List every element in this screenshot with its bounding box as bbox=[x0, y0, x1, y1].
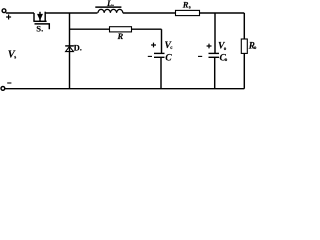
svg-text:s: s bbox=[14, 56, 16, 61]
load resistor R box bbox=[241, 39, 247, 53]
inductor L coil bbox=[95, 7, 123, 13]
capacitor C2 vertical from top rail bbox=[214, 13, 216, 53]
resistor Rs box bbox=[176, 10, 200, 15]
node A vertical wire (to diode / snubber tee) bbox=[69, 13, 71, 89]
svg-text:S.: S. bbox=[36, 23, 43, 33]
label plus (C1) bbox=[151, 43, 156, 48]
wire top rail inductor to Rs bbox=[123, 12, 176, 14]
wire right edge down from corner to load box bbox=[243, 13, 245, 39]
resistor R box (snubber) bbox=[110, 27, 132, 32]
terminal minus (bottom-left) bbox=[1, 83, 11, 90]
label plus (C2) bbox=[207, 44, 212, 49]
capacitor C1 plates bbox=[154, 53, 165, 57]
svg-text:R: R bbox=[117, 31, 124, 41]
terminal plus (top-left) bbox=[2, 9, 11, 20]
svg-text:C: C bbox=[165, 52, 172, 63]
label minus (C1) bbox=[148, 55, 152, 57]
diode D bbox=[65, 46, 74, 52]
wire load box to bottom rail bbox=[243, 54, 245, 89]
svg-text:L.: L. bbox=[106, 0, 114, 8]
svg-text:R: R bbox=[182, 0, 189, 10]
snubber wire from node A bbox=[70, 28, 162, 30]
wire corner down to capacitor C1 bbox=[161, 29, 163, 53]
wire top rail from plus terminal to switch bbox=[6, 12, 34, 14]
label minus (C2) bbox=[198, 55, 202, 57]
wire top rail Rs to corner bbox=[200, 12, 245, 14]
svg-text:s: s bbox=[189, 5, 191, 10]
wire capacitor C1 to bottom rail bbox=[160, 57, 162, 88]
capacitor C2 plates bbox=[209, 53, 220, 57]
bottom rail wire bbox=[5, 88, 245, 90]
wire top rail from switch to node A bbox=[45, 12, 69, 14]
wire capacitor C2 to bottom rail bbox=[214, 57, 216, 88]
wire top rail node A to inductor bbox=[70, 12, 98, 14]
switch S (drop, bottom bar, ticks, arrow) bbox=[33, 12, 49, 30]
svg-text:D.: D. bbox=[74, 43, 82, 53]
